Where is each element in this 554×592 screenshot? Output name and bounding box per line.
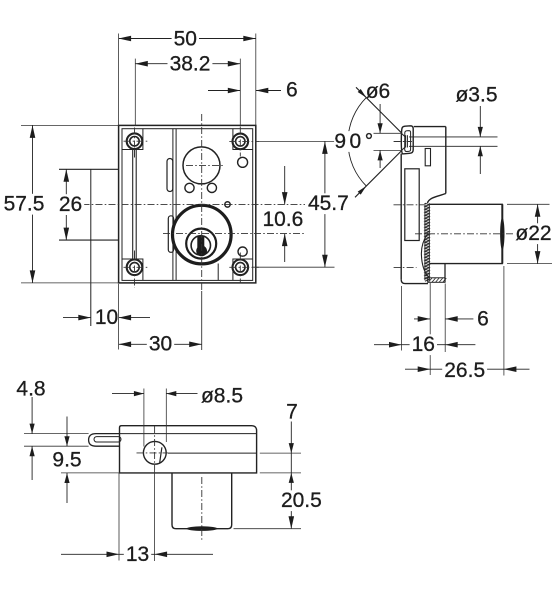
side view: countersink inner profile [405,131,411,152]
dimension 26.5 [405,368,430,370]
side view dim extension: flange face [429,283,431,375]
bottom view: cylinder end cap lens [187,526,218,531]
dimension 13 [61,553,119,555]
svg-text:20.5: 20.5 [281,489,322,512]
dimension 50 [119,38,256,40]
svg-text:50: 50 [174,28,197,51]
front view: bottom-left screw hole [127,260,143,276]
svg-text:ø6: ø6 [366,80,391,103]
bottom view: spindle hole circle [143,441,166,464]
dimension 6 top [208,90,240,92]
front view: latch bolt guide channel [132,150,134,260]
front view: small hole above bottom-right screw [238,247,247,256]
front view: bottom-left screw pad [122,259,143,280]
side view: cylinder axis centerline [415,233,528,235]
angle dimension 90deg arc [348,98,366,186]
side view dim extension: cylinder end [503,266,505,376]
side view: cylinder body bulge outline [421,233,428,276]
front view: tiny pin hole on centerline [225,202,230,207]
bottom view: plate face line [24,433,89,435]
svg-text:ø8.5: ø8.5 [201,385,243,408]
svg-text:6: 6 [477,307,489,330]
front view: cylinder outer ring (bold) [173,205,232,264]
bottom view: cylinder outline [172,473,232,529]
svg-text:13: 13 [126,543,149,566]
side view: knurled flange face (serration) [424,203,426,280]
front view: spindle hole (large circle) [183,147,220,184]
front view: line below cylinder [217,264,219,281]
side view dim extension: plate back [401,286,403,351]
svg-text:16: 16 [412,333,435,356]
dimension 16 [374,344,402,346]
svg-text:57.5: 57.5 [4,193,45,216]
svg-text:ø22: ø22 [515,222,551,245]
front view: cylinder plug circle [191,236,210,255]
bottom view: body outline [120,426,257,473]
svg-text:90°: 90° [334,130,376,153]
svg-text:6: 6 [286,79,298,102]
front view: bottom-right screw hole [233,260,249,276]
dimension 45.7 extension lines [258,140,335,142]
side view: small screw hole lines [409,136,498,138]
bottom view: cylinder centerline [201,477,203,540]
dimension 38.2 [135,63,240,65]
svg-text:45.7: 45.7 [308,192,349,215]
bottom view: spindle vertical centerline [154,426,156,470]
front view: pair of small holes [185,183,194,192]
side view: plate back edge [400,154,402,280]
front view: lock case inner face outline [122,129,253,281]
side view: case front edge lower [444,264,446,283]
front view: latch bolt protruding left [59,168,119,170]
side view: bottom lip cross-hatch [428,278,445,283]
side view: case top edge [414,126,446,128]
side view: plate centerline [394,204,425,206]
side view: plate bottom with rounded corner [401,280,428,284]
svg-text:10.6: 10.6 [262,208,303,231]
side view: screw axis centerline [394,141,412,143]
side view: screw bore lines [405,135,407,147]
dimension 7 [290,422,292,454]
dimension 10.6 [284,166,286,205]
side view: case front edge upper [445,127,447,194]
bottom view: spindle horizontal centerline [137,452,169,454]
front view: lock case outer outline [119,125,256,283]
dimension diameter6 [379,104,381,133]
dimension 9.5 [66,417,68,447]
svg-text:9.5: 9.5 [52,449,81,472]
front view: channel slot end marks [134,150,136,158]
front view: top-left screw hole [127,133,143,149]
side view: small slot near top [425,149,430,166]
svg-text:30: 30 [149,333,172,356]
front view: slot cutout lower [168,216,173,253]
dimension 4.8 [31,397,33,434]
side view: cylinder bottom edge [430,263,503,265]
front view: mechanism partition lines [172,129,174,281]
side view: cylinder top edge [430,203,503,205]
front view: key silhouette [197,237,204,250]
dimension 50 extension lines [118,34,120,126]
svg-text:4.8: 4.8 [16,378,45,401]
svg-text:10: 10 [95,306,118,329]
side view: countersink cone edges [401,133,405,137]
dimension 26 [65,169,67,240]
dimension 10 [63,317,91,319]
bottom view: latch tab slot [94,437,121,442]
side view: countersink curl outline [401,126,413,154]
svg-text:26: 26 [59,193,82,216]
side view: latch opening slot [405,169,419,241]
dimension 38.2 extension lines [134,59,136,126]
dimension 57.5 [32,125,34,283]
side view: neck curve into cylinder flange [427,194,445,204]
front view: cylinder mid ring [186,229,216,259]
svg-text:7: 7 [286,401,298,424]
svg-text:26.5: 26.5 [444,359,485,382]
bottom view: latch bolt tab [89,434,120,447]
front view: spindle hole horizontal centerline [186,164,225,166]
dimension diameter6 extension lines [374,132,402,134]
dimension 13 extension lines [118,473,120,561]
side view dim extension: case front [444,284,446,353]
dimension 20.5 [290,453,292,529]
front view: cylinder horizontal centerline [163,233,305,235]
bottom view: body bottom extension lines [61,472,120,474]
dimension diameter22 extension lines [507,203,550,205]
bottom view: spindle hole chord detail [160,447,162,462]
front view: vertical centerline [201,114,203,291]
front view: small hole below top-right screw [238,157,248,167]
front view: horizontal plate centerline [83,204,306,206]
side view: 90 deg construction line lower [355,150,402,197]
front view: slot cutout upper [167,159,173,192]
dimension 30 extension lines [118,284,120,350]
front view: top-right screw pad [233,129,253,150]
svg-text:38.2: 38.2 [170,53,211,76]
dimension 45.7 [324,141,326,267]
dimension diameter8.5 [112,393,144,395]
front view: bottom-right screw pad [233,259,253,280]
front view: top-right screw hole [233,134,249,150]
bottom view: spindle tangent lines [143,389,145,447]
side view: cylinder end face [501,204,503,263]
dimension 57.5 extension lines [21,124,119,126]
bottom view: latch tab extension line [24,445,89,447]
angle dimension 90deg label [334,131,377,152]
side view: lower screw axis centerline [394,267,417,269]
dimension 30 [119,343,202,345]
svg-text:ø3.5: ø3.5 [455,83,497,106]
front view: top-left screw pad [122,129,143,150]
side view: 90 deg construction line upper [356,87,402,133]
dimension diameter22 [537,204,539,224]
dimension diameter3.5 [479,106,481,137]
dimension 6 side [414,318,430,320]
